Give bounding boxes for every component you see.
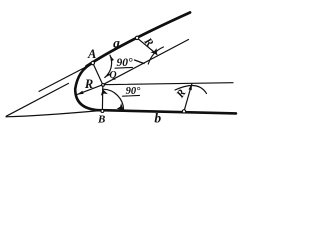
svg-text:Q: Q (109, 70, 116, 81)
90 degree arc at B (103, 89, 124, 110)
node on bottom flange (right R) (182, 110, 185, 113)
wire: radius line A to O (93, 63, 103, 85)
svg-text:a: a (113, 35, 120, 50)
svg-text:b: b (154, 111, 161, 126)
node B (101, 110, 104, 113)
R arrow top: from node on diagonal to offset line (137, 38, 157, 55)
measuring arc top R (148, 47, 163, 64)
wire: thin outer line from vertex V to arc (6, 83, 68, 116)
node on diagonal (top R) (135, 36, 138, 39)
bend arc A to B (75, 63, 102, 110)
R arrow bottom right: from node on bottom flange up to offset line (184, 84, 192, 112)
node A (91, 61, 94, 64)
svg-text:A: A (87, 47, 96, 61)
wire: thin extension of flange left of A (39, 63, 93, 91)
wire: offset construction line through O horizontal (103, 83, 233, 85)
wire: thick bottom flange from B to right (102, 110, 236, 113)
dash right of upper 90 label (135, 60, 145, 64)
90 degree arc at A (105, 55, 112, 77)
measuring arc bottom R (175, 86, 207, 94)
svg-text:R: R (84, 77, 93, 91)
wire: radius line O to B (101, 85, 103, 111)
wire: thin bottom extension from V to B (6, 110, 102, 116)
svg-text:B: B (97, 114, 105, 126)
wire: offset construction line through O parallel to diagonal (103, 40, 189, 85)
svg-text:90°: 90° (117, 57, 134, 69)
svg-text:90°: 90° (126, 86, 142, 97)
node O (102, 84, 105, 87)
underline of lower 90 label (123, 94, 140, 97)
underline of upper 90 label (115, 66, 133, 69)
R arrow from O to bend arc (77, 85, 103, 95)
wire: thick diagonal flange through A to top right (87, 13, 191, 67)
